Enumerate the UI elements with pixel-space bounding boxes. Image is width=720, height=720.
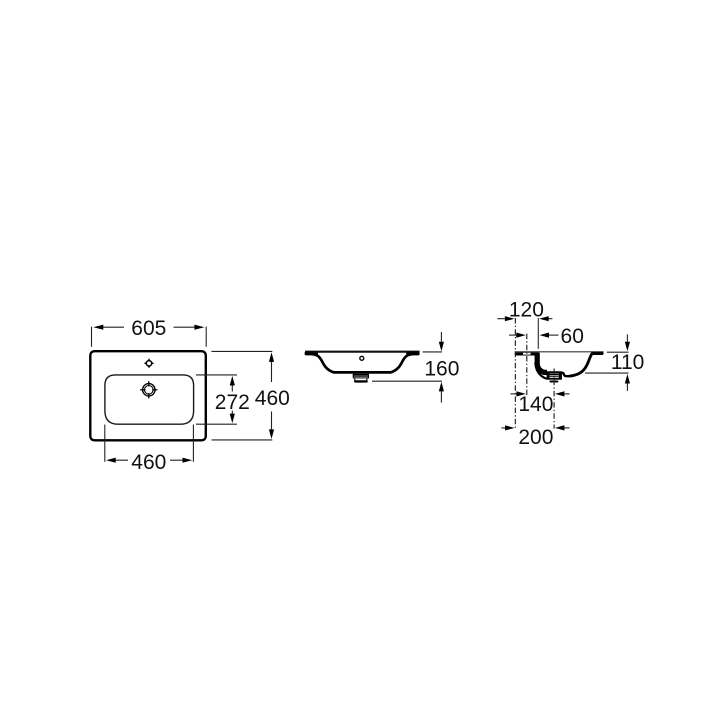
drain trap (side) [547, 373, 562, 381]
dimension 160 (front) [372, 332, 442, 403]
side rim front end [591, 352, 604, 355]
side outer hook under wall [535, 363, 547, 379]
front basin underside profile [310, 354, 415, 373]
dimension 605 (top of plan) [92, 327, 207, 347]
overflow hole (front) [360, 356, 364, 360]
dimension 460 (right of plan) [212, 351, 273, 440]
svg-text:60: 60 [561, 325, 584, 348]
dimension 140 (side) [510, 393, 569, 395]
svg-text:140: 140 [518, 393, 553, 416]
faucet hole symbol (plan) [144, 358, 154, 368]
drain centerline (dash-dot) [553, 369, 555, 429]
front rim left end [305, 352, 318, 356]
drain symbol (plan) [140, 381, 157, 398]
fixing hole extension line [537, 318, 539, 349]
dimension 272 (inner of plan) [196, 375, 237, 424]
dimension 110 (side) [585, 334, 629, 391]
svg-text:272: 272 [215, 391, 250, 414]
svg-text:605: 605 [131, 317, 166, 340]
side rim top line [515, 351, 604, 353]
tap centerline (dash-dot) [526, 334, 528, 398]
svg-text:110: 110 [611, 351, 644, 374]
dimension 200 (side) [501, 427, 569, 429]
basin outer rect (plan) [90, 351, 206, 440]
front rim right end [406, 352, 419, 356]
front rim top line [305, 351, 420, 353]
side bowl bottom [545, 372, 569, 376]
drain trap (front) [353, 374, 369, 382]
dimension 460 (bottom of plan) [105, 425, 194, 462]
wall centerline (dash-dot) [514, 318, 516, 429]
side back wall [537, 353, 547, 373]
dimension 120 (side) [497, 318, 552, 320]
svg-text:460: 460 [255, 387, 290, 410]
svg-text:120: 120 [509, 299, 544, 322]
fixing hole tick (side) [537, 357, 539, 361]
dimension 60 (side) [509, 334, 559, 336]
svg-text:160: 160 [424, 358, 459, 381]
side rim rear ledge [515, 352, 540, 355]
basin inner bowl (plan) [105, 375, 194, 424]
side front rise curve [569, 353, 592, 376]
tap hole slot (side) [523, 353, 531, 355]
svg-text:200: 200 [518, 426, 553, 449]
svg-text:460: 460 [131, 451, 166, 474]
